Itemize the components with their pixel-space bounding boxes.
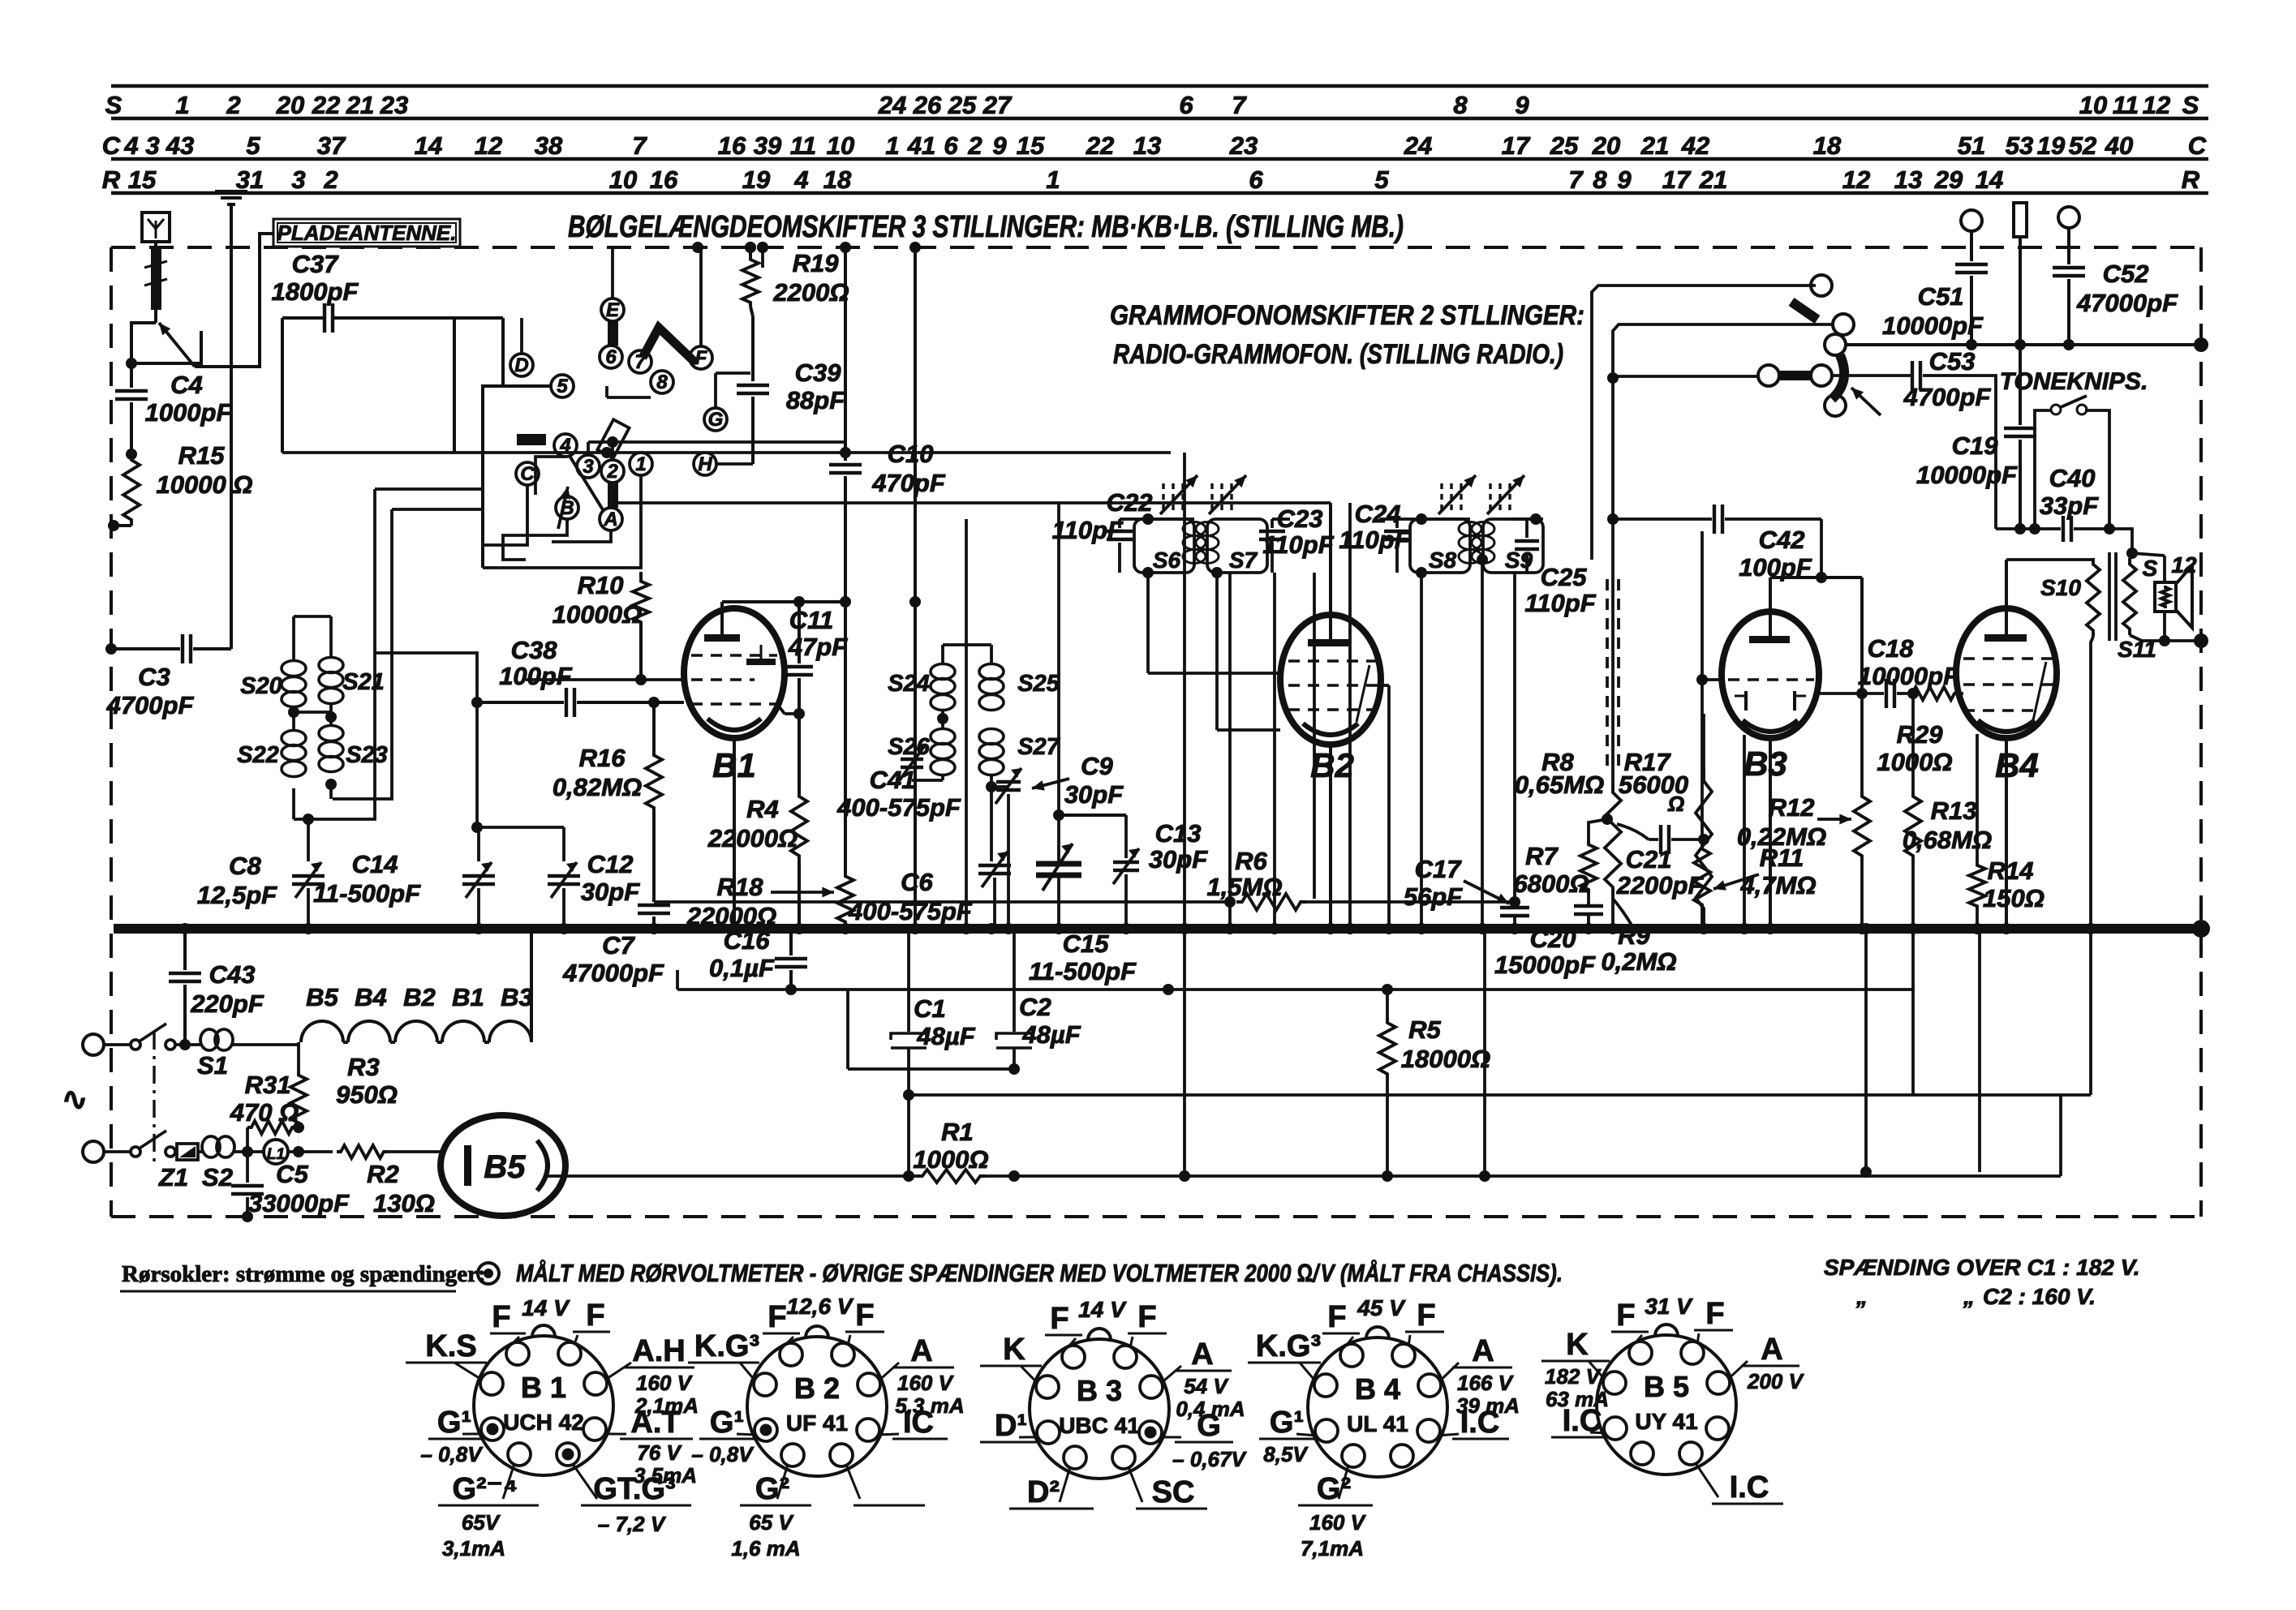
svg-text:13: 13 xyxy=(1894,165,1922,194)
wire y1450 xyxy=(565,1174,917,1178)
tuning gang C15 xyxy=(1057,503,1060,860)
resistor R6 xyxy=(1224,896,1236,908)
svg-text:R: R xyxy=(2182,165,2200,194)
svg-text:C38: C38 xyxy=(511,636,558,664)
svg-text:C7: C7 xyxy=(602,931,635,960)
svg-text:C2 : 160 V.: C2 : 160 V. xyxy=(1983,1284,2096,1309)
chassis bus wire xyxy=(114,924,2201,934)
svg-text:C41: C41 xyxy=(870,766,916,794)
svg-text:47000pF: 47000pF xyxy=(2076,289,2178,317)
svg-text:C6: C6 xyxy=(901,868,933,896)
switch wiper bar 2-A xyxy=(608,482,618,508)
IF can S6 xyxy=(1134,519,1194,573)
svg-text:H: H xyxy=(698,453,712,475)
pot linkage dashed xyxy=(1606,579,1609,771)
svg-text:51: 51 xyxy=(1958,131,1985,160)
vertical trunk 1460 xyxy=(1183,453,1186,929)
trimmer C9 xyxy=(990,775,993,787)
svg-text:14 V: 14 V xyxy=(522,1295,570,1320)
svg-text:R15: R15 xyxy=(178,441,226,470)
IF trimmer arrows left pair xyxy=(1162,483,1164,513)
R8 wiper to R7 xyxy=(1602,814,1613,825)
switch rotor mark xyxy=(597,419,629,457)
wiring table frame xyxy=(111,84,2208,88)
svg-text:C16: C16 xyxy=(724,926,771,955)
svg-text:– 0,8V: – 0,8V xyxy=(691,1442,755,1466)
svg-text:6: 6 xyxy=(1249,165,1263,194)
vertical trunk 1128 xyxy=(914,247,917,929)
svg-text:SC: SC xyxy=(1152,1475,1195,1509)
svg-text:S1: S1 xyxy=(197,1051,228,1080)
resistor R8 potentiometer xyxy=(1605,784,1621,896)
svg-text:C8: C8 xyxy=(229,852,261,880)
switch contact 3 xyxy=(577,455,600,478)
wire S10 bottom to bus xyxy=(2091,637,2093,929)
svg-text:R6: R6 xyxy=(1235,847,1267,875)
svg-text:22: 22 xyxy=(1086,131,1114,160)
capacitor C2 xyxy=(1013,929,1016,1032)
svg-text:G¹: G¹ xyxy=(1270,1406,1304,1440)
svg-text:100pF: 100pF xyxy=(499,662,573,690)
wire C53 feed xyxy=(1613,375,1758,378)
svg-text:48µF: 48µF xyxy=(1021,1020,1081,1049)
wire C10 top horizontal xyxy=(282,451,1171,454)
resistor R18 xyxy=(837,872,853,926)
svg-text:20: 20 xyxy=(1592,131,1620,160)
svg-text:D: D xyxy=(514,354,528,376)
svg-text:S7: S7 xyxy=(1229,547,1258,573)
svg-text:110pF: 110pF xyxy=(1339,526,1410,554)
svg-text:18: 18 xyxy=(1813,131,1842,160)
wire antenna to C4 xyxy=(131,323,156,363)
svg-text:„: „ xyxy=(1963,1284,1975,1309)
capacitor C16 xyxy=(789,929,793,955)
vertical 1830 xyxy=(1483,929,1486,1176)
svg-text:1: 1 xyxy=(635,453,646,475)
vertical trunk 1571 xyxy=(1273,573,1276,929)
svg-text:56pF: 56pF xyxy=(1404,882,1463,911)
switch contact A xyxy=(600,508,622,530)
svg-text:14: 14 xyxy=(1976,165,2003,194)
svg-text:F: F xyxy=(767,1300,786,1334)
verticals right below bus xyxy=(1864,929,1868,1172)
capacitor C22 xyxy=(1107,530,1133,533)
coil S26 xyxy=(931,729,955,745)
svg-text:– 0,8V: – 0,8V xyxy=(420,1442,484,1466)
svg-text:C9: C9 xyxy=(1081,752,1113,780)
band coil wiring xyxy=(288,706,299,718)
oscillator wiring xyxy=(943,643,991,646)
svg-text:21: 21 xyxy=(1640,131,1669,160)
coil S1 xyxy=(175,1043,201,1046)
svg-text:RADIO-GRAMMOFON. (STILLING RAD: RADIO-GRAMMOFON. (STILLING RADIO.) xyxy=(1113,339,1563,370)
arrow into antenna coil xyxy=(159,323,195,367)
svg-text:S25: S25 xyxy=(1017,671,1060,697)
switch contact 7 xyxy=(629,350,651,373)
coil S2 xyxy=(198,1150,203,1153)
vertical trunk 1664 xyxy=(1348,503,1352,929)
svg-text:10000pF: 10000pF xyxy=(1882,311,1984,340)
capacitor C3 xyxy=(181,634,184,663)
svg-text:B3: B3 xyxy=(1743,745,1787,783)
coil S24 xyxy=(931,664,955,680)
antenna symbol xyxy=(142,213,170,242)
svg-text:6: 6 xyxy=(605,346,617,368)
svg-text:S20: S20 xyxy=(240,673,282,699)
svg-text:BØLGELÆNGDEOMSKIFTER 3 STILL: BØLGELÆNGDEOMSKIFTER 3 STILLINGER: MB·KB… xyxy=(568,210,1404,244)
svg-text:R12: R12 xyxy=(1769,793,1815,822)
svg-text:11: 11 xyxy=(2113,91,2139,119)
svg-text:41: 41 xyxy=(907,131,935,160)
resistor R19 xyxy=(745,242,756,253)
svg-text:S22: S22 xyxy=(237,742,279,768)
coil S20 xyxy=(282,661,306,676)
svg-text:1000Ω: 1000Ω xyxy=(1877,748,1952,776)
svg-text:4: 4 xyxy=(793,165,808,194)
tube B1 xyxy=(684,608,785,738)
svg-text:C3: C3 xyxy=(138,663,170,691)
chassis dashed border xyxy=(111,246,2201,249)
svg-text:65 V: 65 V xyxy=(749,1510,794,1535)
wire C3 node xyxy=(105,643,117,655)
toneknips switch box xyxy=(2035,410,2051,529)
svg-text:30pF: 30pF xyxy=(1064,780,1124,809)
wire mid horizontal 620 xyxy=(617,501,1331,504)
svg-text:C17: C17 xyxy=(1415,855,1463,883)
svg-text:„: „ xyxy=(1855,1284,1868,1309)
svg-text:160 V: 160 V xyxy=(1309,1510,1367,1535)
ground symbol top xyxy=(215,190,247,193)
svg-text:48µF: 48µF xyxy=(916,1022,975,1050)
wire switch row y425 xyxy=(1846,343,2201,346)
svg-text:40: 40 xyxy=(2105,131,2133,160)
svg-text:I.C: I.C xyxy=(1460,1406,1500,1440)
switch S2 xyxy=(131,1147,140,1157)
svg-text:8: 8 xyxy=(1453,91,1468,119)
svg-text:C43: C43 xyxy=(209,960,256,989)
vertical trunk 1516 xyxy=(1228,573,1232,929)
svg-text:0,2MΩ: 0,2MΩ xyxy=(1601,947,1676,976)
wire S1 to heater column xyxy=(252,1043,299,1046)
svg-text:7: 7 xyxy=(1568,165,1584,194)
capacitor C40 xyxy=(2035,527,2061,530)
svg-text:19: 19 xyxy=(742,165,771,194)
tube socket B2 UF41 xyxy=(747,1337,887,1476)
svg-text:C12: C12 xyxy=(587,850,634,878)
svg-text:C42: C42 xyxy=(1759,526,1805,554)
svg-text:G: G xyxy=(1197,1409,1221,1443)
svg-text:13: 13 xyxy=(1133,131,1161,160)
svg-text:12: 12 xyxy=(2143,91,2170,119)
svg-text:Z1: Z1 xyxy=(158,1163,188,1191)
svg-text:76 V: 76 V xyxy=(637,1440,682,1465)
svg-text:39: 39 xyxy=(754,131,782,160)
capacitor C41 xyxy=(941,775,944,780)
svg-text:F: F xyxy=(1050,1302,1068,1336)
capacitor C18 xyxy=(1885,679,1888,708)
svg-text:B 3: B 3 xyxy=(1077,1374,1122,1407)
svg-text:24: 24 xyxy=(878,91,906,119)
wire top border to col 940 xyxy=(761,247,764,268)
svg-text:C14: C14 xyxy=(352,850,398,878)
svg-text:B1: B1 xyxy=(452,983,484,1011)
switch contact 5 xyxy=(551,375,574,397)
heater riser to bus xyxy=(530,929,533,1042)
svg-text:31: 31 xyxy=(236,165,264,194)
svg-text:C40: C40 xyxy=(2049,464,2096,492)
tube B5 rectifier xyxy=(441,1115,565,1216)
svg-text:S8: S8 xyxy=(1429,547,1457,573)
svg-text:GT.G³: GT.G³ xyxy=(593,1472,675,1506)
svg-text:22: 22 xyxy=(312,91,340,119)
svg-text:14 V: 14 V xyxy=(1078,1297,1127,1322)
switch contact 8 xyxy=(651,371,673,393)
svg-text:C: C xyxy=(2188,131,2207,160)
gramophone switch arrow xyxy=(1851,388,1881,415)
trimmer C12 xyxy=(562,827,565,861)
gramophone switch wipers xyxy=(1791,302,1817,320)
svg-text:D¹: D¹ xyxy=(995,1409,1027,1443)
heater chain arcs xyxy=(299,1041,301,1043)
resistor R3 xyxy=(290,1071,307,1127)
capacitor C4 xyxy=(130,363,133,388)
svg-text:31 V: 31 V xyxy=(1645,1294,1693,1319)
svg-text:6: 6 xyxy=(1179,91,1193,119)
svg-text:S21: S21 xyxy=(342,669,385,695)
svg-text:47pF: 47pF xyxy=(788,633,848,661)
svg-text:470 Ω: 470 Ω xyxy=(230,1098,299,1127)
svg-text:0,65MΩ: 0,65MΩ xyxy=(1515,771,1604,799)
svg-text:A.H: A.H xyxy=(632,1334,685,1368)
switch contact D xyxy=(510,354,533,376)
svg-text:950Ω: 950Ω xyxy=(336,1080,398,1109)
switch contact G xyxy=(704,408,727,431)
svg-text:C39: C39 xyxy=(795,358,842,387)
svg-text:27: 27 xyxy=(982,91,1013,119)
svg-text:S6: S6 xyxy=(1153,547,1181,573)
svg-text:A: A xyxy=(603,509,617,530)
capacitor C38 xyxy=(471,697,483,708)
svg-text:22000Ω: 22000Ω xyxy=(707,824,798,852)
svg-text:43: 43 xyxy=(166,131,194,160)
svg-text:B2: B2 xyxy=(403,983,436,1011)
svg-text:C52: C52 xyxy=(2103,260,2149,288)
svg-text:10000pF: 10000pF xyxy=(1916,461,2018,489)
resistor R4 xyxy=(798,714,801,791)
IF can S8 xyxy=(1410,519,1470,573)
svg-text:S: S xyxy=(2143,556,2158,581)
svg-text:130Ω: 130Ω xyxy=(373,1189,435,1217)
svg-text:S2: S2 xyxy=(202,1163,233,1191)
resistor R14 xyxy=(1976,734,1979,861)
tube B4 xyxy=(1956,608,2057,738)
wire pladeantenne to arrow xyxy=(195,234,273,367)
svg-text:F: F xyxy=(695,347,708,369)
svg-text:MÅLT MED RØRVOLTMETER - ØVRIGE: MÅLT MED RØRVOLTMETER - ØVRIGE SPÆNDINGE… xyxy=(516,1259,1563,1287)
svg-text:160 V: 160 V xyxy=(636,1371,694,1395)
svg-text:23: 23 xyxy=(380,91,408,119)
svg-text:G¹: G¹ xyxy=(437,1406,471,1440)
svg-text:UBC 41: UBC 41 xyxy=(1059,1413,1140,1438)
svg-text:7: 7 xyxy=(1232,91,1247,119)
svg-text:TONEKNIPS.: TONEKNIPS. xyxy=(2000,368,2148,395)
svg-text:B3: B3 xyxy=(501,983,533,1011)
switch contact E xyxy=(601,298,624,321)
svg-text:Ω: Ω xyxy=(1667,792,1684,816)
switch lever 7-F xyxy=(643,328,696,363)
svg-text:3: 3 xyxy=(145,131,159,160)
svg-text:37: 37 xyxy=(317,131,346,160)
trimmer C14 xyxy=(477,827,480,861)
svg-text:S23: S23 xyxy=(346,742,388,768)
resistor R13 xyxy=(1911,693,1915,791)
switch contact 2 xyxy=(601,460,624,483)
svg-text:15: 15 xyxy=(128,165,157,194)
svg-text:S10: S10 xyxy=(2040,575,2081,600)
svg-text:I.C: I.C xyxy=(1730,1470,1769,1505)
wave switch box xyxy=(483,386,552,568)
svg-text:23: 23 xyxy=(1229,131,1258,160)
capacitor C25 xyxy=(1515,539,1539,543)
svg-text:9: 9 xyxy=(1515,91,1529,119)
tube B3 xyxy=(1722,612,1819,738)
svg-text:2200Ω: 2200Ω xyxy=(772,278,849,307)
wire y1020 xyxy=(477,826,564,829)
tube B3 wiring xyxy=(1769,738,1772,929)
svg-text:65V: 65V xyxy=(462,1510,501,1535)
svg-text:8: 8 xyxy=(1593,165,1607,194)
svg-text:19: 19 xyxy=(2037,131,2066,160)
svg-text:R19: R19 xyxy=(793,249,840,277)
resistor R29 xyxy=(1908,687,1958,700)
output transformer S10 S11 xyxy=(2006,558,2093,561)
svg-text:25: 25 xyxy=(948,91,977,119)
svg-text:4700pF: 4700pF xyxy=(1903,383,1992,411)
svg-text:18000Ω: 18000Ω xyxy=(1401,1045,1490,1073)
border junction dots xyxy=(692,242,703,253)
svg-text:1: 1 xyxy=(175,91,189,119)
switch position arrow xyxy=(558,487,568,529)
resistor R17 xyxy=(1702,714,1705,769)
svg-text:2: 2 xyxy=(606,461,618,483)
svg-text:C15: C15 xyxy=(1063,930,1110,958)
svg-text:F: F xyxy=(1417,1299,1435,1333)
capacitor C10 xyxy=(840,242,851,253)
svg-text:S9: S9 xyxy=(1505,547,1533,573)
svg-text:R10: R10 xyxy=(578,571,624,599)
wire y1318 xyxy=(848,1067,1014,1071)
svg-text:21: 21 xyxy=(346,91,374,119)
svg-text:10: 10 xyxy=(827,131,854,160)
svg-text:C25: C25 xyxy=(1541,563,1588,591)
wire C38 feeder xyxy=(375,653,477,702)
svg-text:110pF: 110pF xyxy=(1262,530,1334,559)
coil S23 xyxy=(319,726,343,741)
svg-text:SPÆNDING OVER C1 : 182 V.: SPÆNDING OVER C1 : 182 V. xyxy=(1824,1255,2140,1280)
svg-text:G²⁻⁴: G²⁻⁴ xyxy=(452,1472,518,1506)
svg-text:F: F xyxy=(1327,1300,1346,1334)
svg-text:18: 18 xyxy=(823,165,852,194)
svg-text:A: A xyxy=(910,1334,932,1368)
svg-text:53: 53 xyxy=(2006,131,2033,160)
svg-text:3,1mA: 3,1mA xyxy=(442,1536,505,1561)
resistor R10 xyxy=(633,577,649,626)
wire y1220 xyxy=(677,988,1915,991)
svg-text:10000 Ω: 10000 Ω xyxy=(156,470,252,499)
svg-text:29: 29 xyxy=(1934,165,1963,194)
tube socket B4 UL41 xyxy=(1308,1337,1447,1477)
resistor R12 xyxy=(1860,693,1864,791)
svg-text:10: 10 xyxy=(2079,91,2107,119)
wire switch row y463 with C53 xyxy=(1779,374,1811,377)
switch contact H xyxy=(694,453,716,475)
svg-text:B4: B4 xyxy=(1995,746,2039,784)
tube socket B1 UCH42 xyxy=(474,1336,613,1475)
svg-text:12,6 V: 12,6 V xyxy=(787,1294,854,1319)
svg-text:24: 24 xyxy=(1404,131,1432,160)
svg-text:F: F xyxy=(1616,1299,1635,1333)
svg-text:C13: C13 xyxy=(1155,819,1202,848)
svg-text:C5: C5 xyxy=(276,1160,308,1188)
svg-text:1,6 mA: 1,6 mA xyxy=(731,1536,800,1561)
svg-text:17: 17 xyxy=(1662,165,1692,194)
svg-text:4700pF: 4700pF xyxy=(106,691,195,719)
svg-text:A: A xyxy=(1472,1334,1494,1368)
svg-text:∿: ∿ xyxy=(62,1083,88,1117)
svg-text:R29: R29 xyxy=(1897,720,1944,749)
svg-text:B4: B4 xyxy=(355,983,387,1011)
svg-text:10000Ω: 10000Ω xyxy=(553,600,642,629)
switch contact 6 xyxy=(600,346,622,368)
svg-text:R2: R2 xyxy=(367,1160,399,1188)
svg-text:S24: S24 xyxy=(888,671,930,697)
svg-text:C4: C4 xyxy=(170,371,203,399)
svg-text:30pF: 30pF xyxy=(1149,845,1208,874)
svg-text:1: 1 xyxy=(885,131,899,160)
wire y1112 AVC xyxy=(654,900,1230,904)
svg-text:B5: B5 xyxy=(306,983,338,1011)
svg-text:3: 3 xyxy=(583,456,594,478)
tube B4 wiring xyxy=(2005,738,2008,929)
wire S11 bottom xyxy=(2130,635,2201,641)
svg-text:K: K xyxy=(1566,1328,1589,1362)
svg-text:2200pF: 2200pF xyxy=(1616,871,1705,899)
switch contact C xyxy=(516,462,539,485)
svg-text:7: 7 xyxy=(632,131,647,160)
fuse top right xyxy=(2014,203,2027,237)
svg-text:B5: B5 xyxy=(484,1149,526,1185)
wire switch to band coils xyxy=(308,489,375,819)
svg-text:R16: R16 xyxy=(579,744,626,772)
svg-text:5: 5 xyxy=(1374,165,1389,194)
IF wiring xyxy=(1142,513,1154,525)
svg-text:5: 5 xyxy=(557,376,568,397)
svg-text:B 2: B 2 xyxy=(794,1372,840,1405)
svg-text:G¹: G¹ xyxy=(710,1406,744,1440)
svg-text:C22: C22 xyxy=(1107,488,1153,517)
svg-text:26: 26 xyxy=(913,91,942,119)
svg-text:C37: C37 xyxy=(292,250,340,278)
svg-text:47000pF: 47000pF xyxy=(562,959,664,987)
capacitor C21 xyxy=(1617,824,1649,839)
svg-text:UY 41: UY 41 xyxy=(1635,1409,1697,1434)
svg-text:220pF: 220pF xyxy=(190,990,264,1018)
svg-text:UL 41: UL 41 xyxy=(1347,1411,1408,1436)
svg-text:R5: R5 xyxy=(1408,1015,1441,1044)
svg-text:IC: IC xyxy=(903,1406,934,1440)
svg-text:C18: C18 xyxy=(1868,634,1915,663)
svg-text:1000Ω: 1000Ω xyxy=(913,1145,988,1174)
